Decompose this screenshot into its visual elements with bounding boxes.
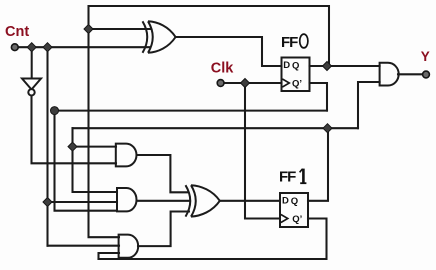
- wire Clk vertical to FF1 clock: [245, 83, 280, 219]
- and gate U-Y output gate: [380, 63, 399, 86]
- wire G1 output to XOR2: [137, 155, 188, 192]
- node junction dot Q0' left: [51, 107, 59, 115]
- wire Q0' vertical to G2: [55, 111, 118, 211]
- and gate G1: [116, 144, 137, 167]
- svg-text:Q: Q: [292, 61, 299, 72]
- wire G2 output to XOR2: [137, 200, 190, 202]
- and gate G2: [117, 188, 137, 211]
- wire Q1' up to G3 input: [99, 253, 120, 259]
- wire Cnt vertical long branch: [46, 47, 48, 246]
- svg-text:Cnt: Cnt: [5, 24, 29, 40]
- wire Cnt to AND G2 input: [48, 201, 118, 203]
- terminal Y: [423, 71, 430, 78]
- node junction dot Q1 to G1: [68, 142, 77, 151]
- wire Clk to FF0 clock: [221, 82, 282, 84]
- svg-text:D: D: [282, 196, 289, 207]
- node junction dot Cnt to G2: [43, 198, 52, 207]
- flip-flop FF0 box: [282, 58, 310, 92]
- wire Q1 line across: [73, 127, 359, 129]
- wire FF0 Q' output descent: [310, 83, 328, 111]
- terminal Clk: [217, 80, 224, 87]
- wire XOR1 output to FF0 D: [175, 37, 281, 66]
- flip-flop FF1 box: [280, 193, 308, 227]
- node junction dot Cnt-vertical: [43, 43, 52, 52]
- node junction dot Q0 output: [323, 62, 332, 71]
- wire AND output to Y terminal: [398, 73, 423, 75]
- svg-text:FF: FF: [279, 169, 296, 186]
- terminal Cnt: [11, 44, 18, 51]
- flip-flop FF1 clock triangle: [281, 215, 288, 223]
- wire Q0 feedback to XOR1 input: [89, 28, 151, 30]
- and gate G3: [119, 235, 139, 258]
- wire inverter output to AND G1 input: [32, 95, 117, 163]
- svg-text:Q’: Q’: [292, 79, 302, 90]
- svg-text:Q: Q: [291, 196, 298, 207]
- wire G3 output to XOR2: [138, 212, 189, 247]
- wire XOR2 output to FF1 D: [220, 200, 280, 202]
- svg-text:Clk: Clk: [211, 61, 235, 77]
- node junction dot Clk branch: [241, 79, 250, 88]
- svg-text:FF: FF: [281, 34, 298, 51]
- flip-flop FF0 clock triangle: [282, 79, 289, 87]
- svg-text:Y: Y: [421, 49, 430, 64]
- wire net Cnt horizontal to XOR1: [15, 46, 150, 48]
- wire Cnt to AND G3 input: [48, 245, 120, 247]
- node junction dot Q0 feedback XOR1: [84, 25, 93, 34]
- svg-text:D: D: [283, 60, 290, 71]
- wire Q1 branch down to gates: [73, 128, 118, 192]
- node junction dot Cnt-inverter: [27, 43, 36, 52]
- wire Q0' return to left: [55, 110, 328, 112]
- wire FF0 Q output to AND gate: [310, 65, 380, 67]
- wire Q1 to G1 input: [73, 146, 117, 148]
- wire Cnt branch to inverter: [31, 47, 33, 78]
- wire Q1 to AND-Y lower input: [358, 82, 380, 128]
- wire Q1 up from FF1 Q: [308, 128, 328, 201]
- wire FF1 Q' to bottom rail: [99, 219, 327, 260]
- xor gate XOR1: [143, 21, 176, 53]
- node junction dot Q1 line: [323, 124, 332, 133]
- wire Q0 feedback top loop: [89, 6, 330, 237]
- svg-text:Q’: Q’: [292, 214, 302, 225]
- inverter (Cnt'): [22, 79, 41, 96]
- xor gate XOR2: [186, 185, 220, 216]
